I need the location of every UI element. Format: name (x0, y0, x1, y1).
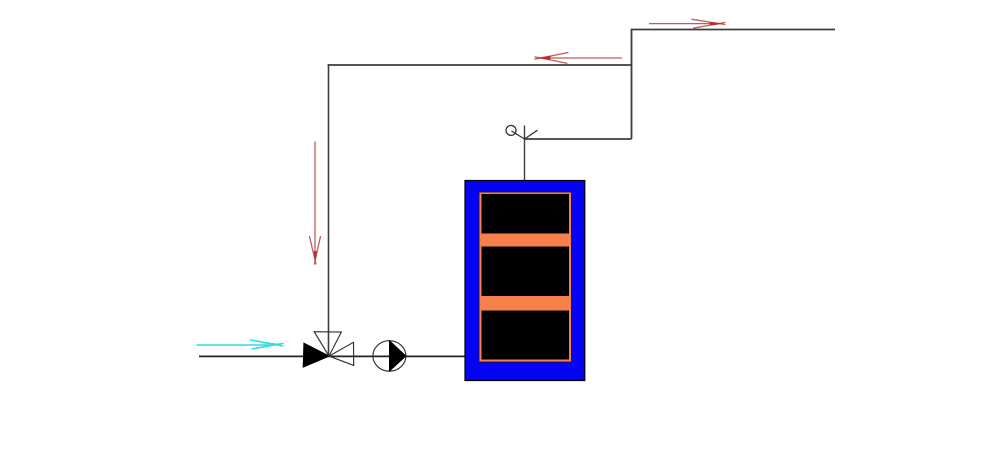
wire: vent horizontal pipe (525, 138, 632, 140)
pump P1: body circle (373, 341, 406, 371)
three-way mixing valve M1: top triangle (314, 332, 341, 356)
boiler B1: black section 2 (482, 247, 570, 297)
wire: bottom pipe to boiler (199, 355, 465, 357)
cyan arrow A4 (flow right, cold inlet) (197, 340, 284, 349)
wire: upper return pipe horizontal (328, 64, 632, 66)
wire: left vertical pipe (328, 64, 330, 356)
three-way mixing valve M1: left triangle (filled) (303, 343, 329, 367)
boiler B1: blue casing (465, 181, 585, 381)
vent valve V1: circle head (506, 125, 516, 135)
wire: top supply pipe horizontal (632, 29, 836, 31)
boiler B1: black section 1 (482, 194, 570, 234)
wire: boiler top stem (524, 126, 526, 182)
red arrow A2 (flow left, return pipe) (535, 53, 623, 64)
red arrow A1 (flow right, top pipe) (649, 19, 726, 28)
three-way mixing valve M1: right triangle (329, 342, 354, 365)
red arrow A3 (flow down, left vertical pipe) (309, 142, 320, 265)
vent valve V1: stem to junction (512, 131, 525, 139)
vent valve V1: right whisker (525, 130, 538, 139)
wire: right vertical pipe (631, 29, 633, 139)
boiler B1: orange inner frame (479, 192, 572, 362)
pump P1: impeller triangle (filled) (390, 341, 406, 371)
boiler B1: black section 3 (482, 311, 570, 360)
